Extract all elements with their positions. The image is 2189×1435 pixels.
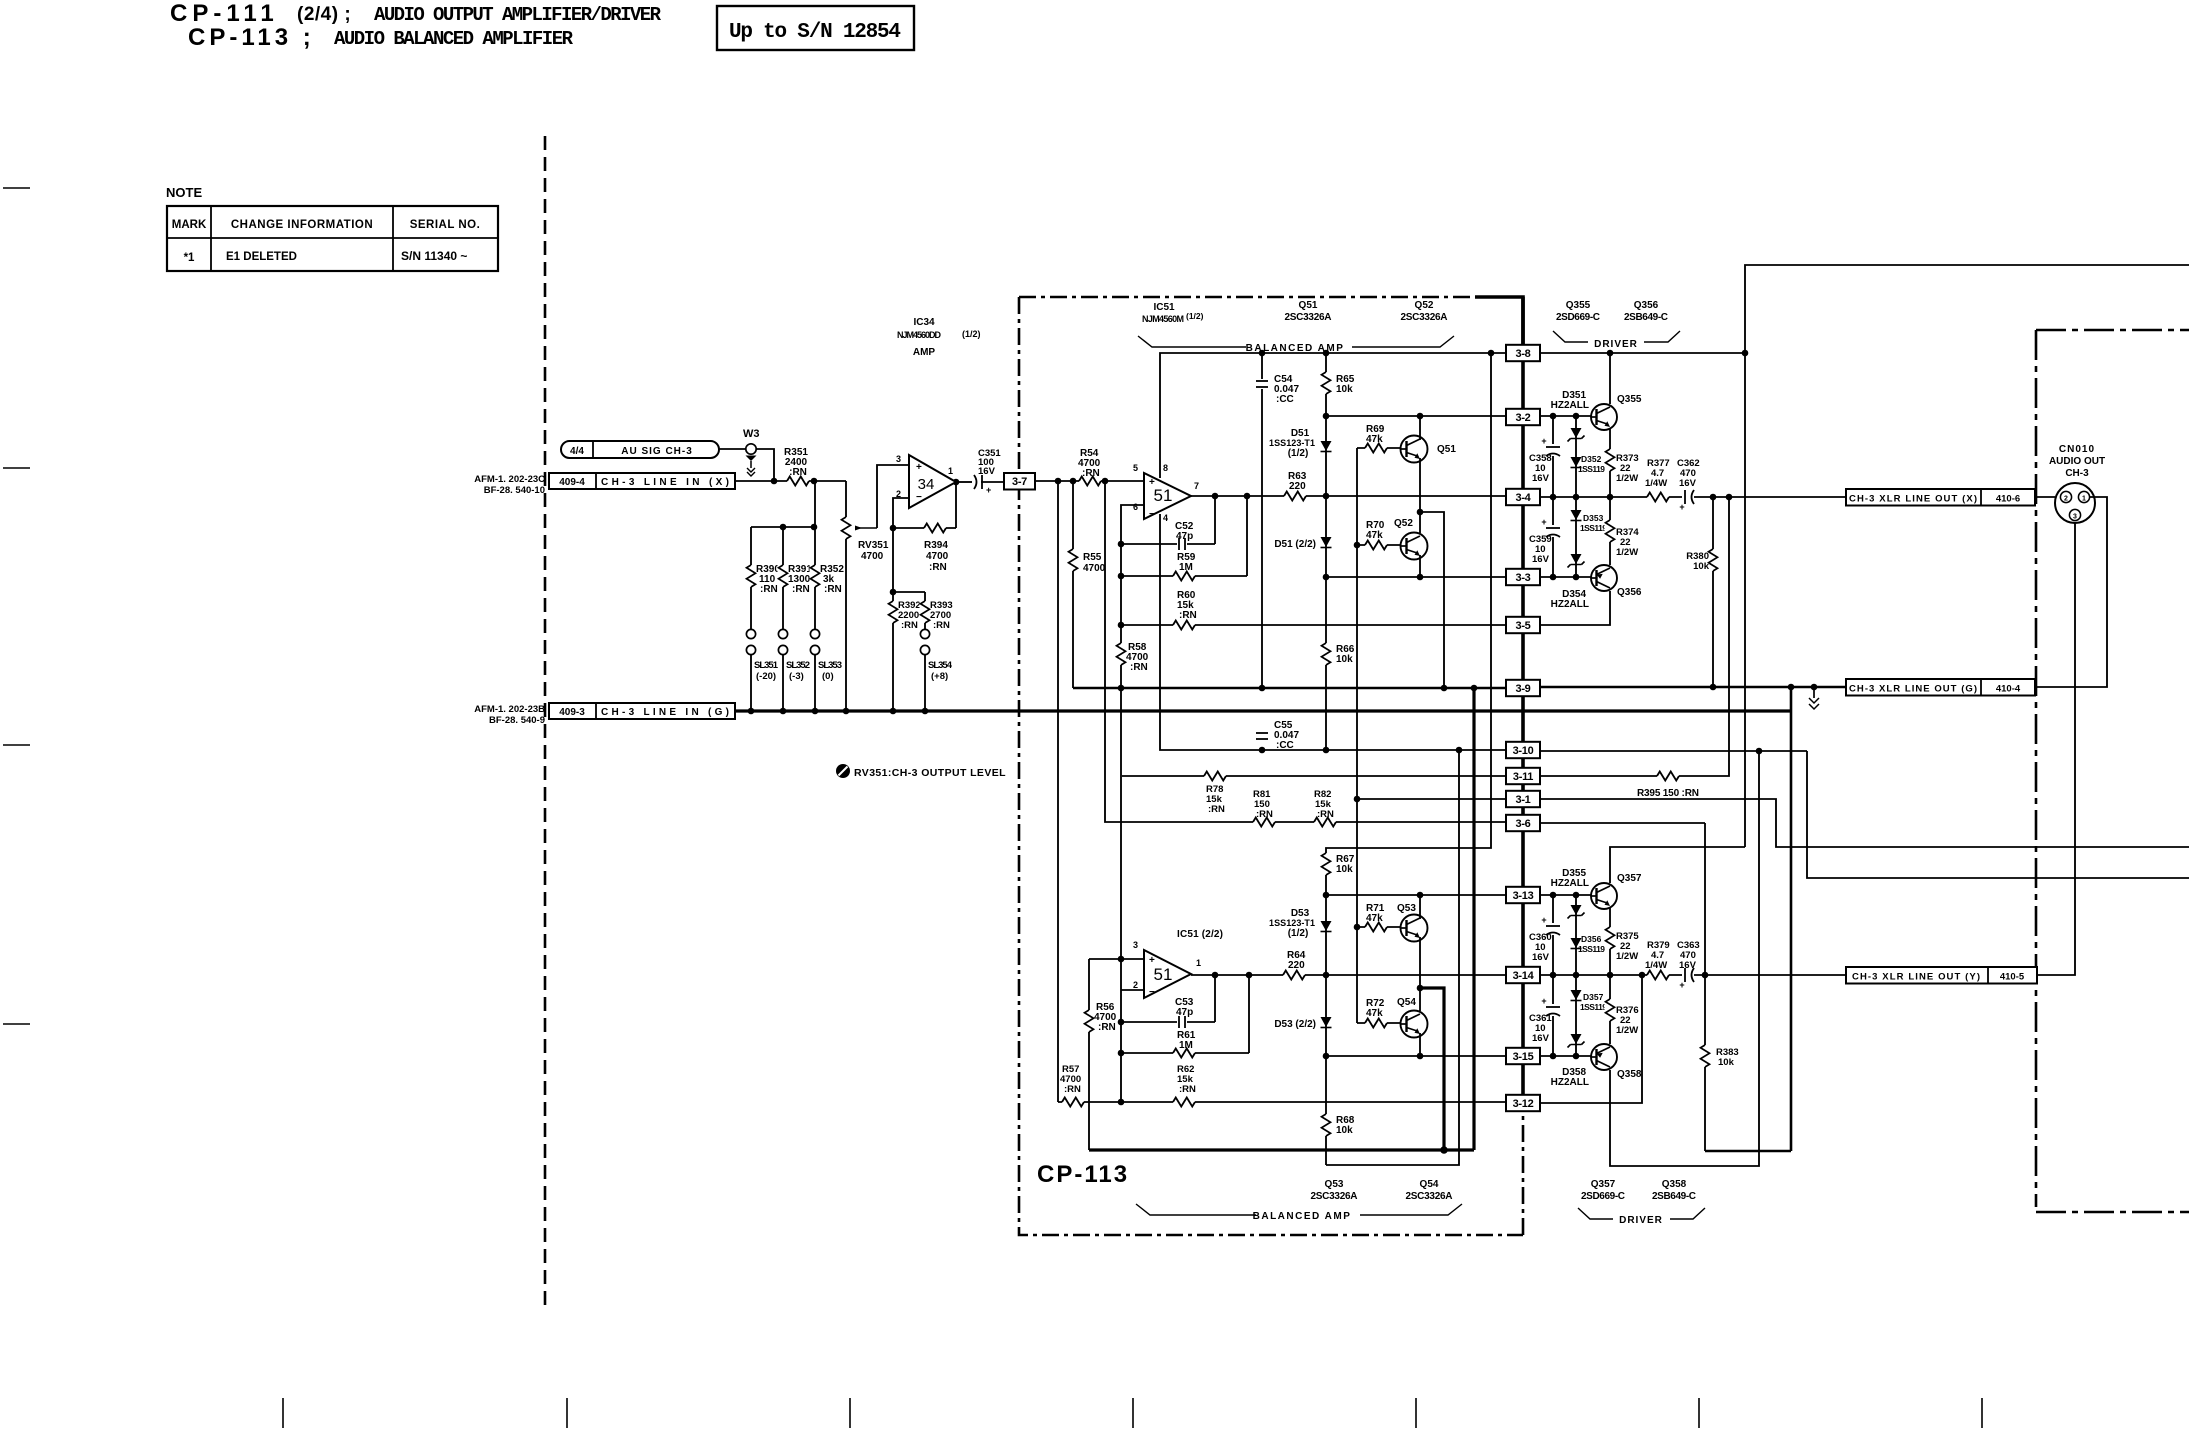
svg-text:+: + (1541, 436, 1546, 446)
potentiometer RV351 4700 (845, 481, 847, 712)
wire 3-10 return to right sheet (1807, 751, 2189, 878)
svg-text:NJM4560M: NJM4560M (1142, 314, 1184, 324)
svg-text:IC51: IC51 (1153, 302, 1175, 313)
wire Q357 collector to supply (1610, 847, 1745, 883)
wire 3-11 line with R78 (1122, 775, 1506, 777)
wire R392/R393 link (893, 591, 925, 593)
svg-text:3: 3 (1133, 940, 1138, 950)
connector box 3-8 (1506, 345, 1540, 361)
svg-text:220: 220 (1288, 960, 1305, 971)
resistor R55 4700 (1068, 549, 1079, 571)
svg-text:47k: 47k (1366, 1008, 1383, 1019)
svg-text:Q51: Q51 (1437, 444, 1456, 455)
diode D51 (2/2) (1321, 537, 1332, 547)
wire ground bus G thick (735, 709, 1791, 712)
svg-text:HZ2ALL: HZ2ALL (1551, 599, 1589, 610)
zener diode D358 HZ2ALL (1571, 1034, 1582, 1044)
capacitor C53 47p (1121, 1021, 1215, 1023)
svg-text:1/2W: 1/2W (1616, 547, 1638, 558)
resistor R56 4700 :RN (1088, 959, 1090, 1150)
svg-text:16V: 16V (1679, 478, 1697, 489)
diode D357 1SS119 (1571, 990, 1582, 1000)
svg-text:3-10: 3-10 (1513, 745, 1534, 757)
svg-text:1/4W: 1/4W (1645, 478, 1667, 489)
svg-text:3-15: 3-15 (1513, 1051, 1534, 1063)
capacitor C362 470 16V (1682, 488, 1694, 506)
wire IC51a pin6 column (1121, 505, 1144, 1102)
diode D53 (2/2) (1321, 1017, 1332, 1027)
svg-text:16V: 16V (1532, 554, 1550, 565)
wire IC51b pin2 (1121, 989, 1144, 991)
resistor R64 220 (1283, 970, 1305, 981)
junction dot D51 3-3 (1323, 574, 1330, 581)
CP-113 board boundary dash-dot box (1019, 297, 1523, 1235)
wire D53 column (1325, 895, 1327, 1165)
svg-text:4700: 4700 (926, 551, 949, 562)
svg-text:3-5: 3-5 (1516, 620, 1531, 632)
junction dots 3-2 line (1323, 413, 1330, 420)
junction dots X line right (1710, 494, 1717, 501)
junction dot D53 3-15 (1323, 1053, 1330, 1060)
left page divider dash line (544, 136, 547, 1310)
svg-text:CH-3 XLR LINE OUT (X): CH-3 XLR LINE OUT (X) (1849, 494, 1977, 505)
junction dots base column (1354, 542, 1361, 549)
switch SL353 (0) (810, 629, 819, 638)
wire RV351 wiper to op-amp + input (877, 465, 909, 528)
wire R391 column (782, 527, 784, 630)
svg-text:RV351:CH-3 OUTPUT LEVEL: RV351:CH-3 OUTPUT LEVEL (854, 767, 1006, 779)
wire interface connector column (1521, 297, 1525, 1096)
resistor R57 4700 :RN (1062, 1097, 1084, 1108)
connector box 409-3 CH-3 LINE IN (G) (549, 703, 735, 719)
capacitor C361 10 16V (1552, 975, 1554, 1056)
connector CN010 XLR circle (2055, 483, 2095, 523)
wire IC51b output Y line (1191, 974, 1506, 976)
svg-text::RN: :RN (789, 467, 807, 478)
svg-text:BF-28. 540-10: BF-28. 540-10 (484, 485, 545, 496)
wire R55 column (1072, 481, 1074, 688)
svg-text:+: + (916, 462, 922, 473)
svg-text:1: 1 (2082, 496, 2086, 503)
svg-text:AUDIO OUT: AUDIO OUT (2049, 456, 2105, 467)
svg-text:DRIVER: DRIVER (1594, 339, 1638, 350)
svg-text:Q53: Q53 (1397, 903, 1416, 914)
svg-text:NJM4560DD: NJM4560DD (897, 330, 942, 340)
svg-text:RV351: RV351 (858, 540, 889, 551)
svg-text:D357: D357 (1583, 992, 1604, 1002)
svg-text:R55: R55 (1083, 552, 1102, 563)
svg-text:(1/2): (1/2) (962, 329, 981, 339)
transistor Q53 (1401, 915, 1428, 942)
connector box 3-6 (1506, 815, 1540, 831)
svg-text:2SB649-C: 2SB649-C (1624, 312, 1668, 323)
transistor Q356 (1591, 565, 1617, 591)
svg-text:1/2W: 1/2W (1616, 473, 1638, 484)
junction dot R63 to D51 (1323, 493, 1330, 500)
svg-text:3-9: 3-9 (1516, 683, 1531, 695)
svg-text:+: + (1541, 915, 1546, 925)
svg-text:16V: 16V (978, 466, 996, 477)
wire XLR pin3 down to 410-5 (2037, 523, 2075, 975)
resistor R67 10k (1321, 853, 1332, 875)
svg-text:+: + (1149, 955, 1155, 966)
svg-text:HZ2ALL: HZ2ALL (1551, 1077, 1589, 1088)
wire IC51a output X line (1191, 495, 1506, 497)
wire IC34 output to C351 (956, 481, 972, 483)
svg-text:8: 8 (1163, 463, 1168, 473)
capacitor C351 100 16V (974, 475, 977, 489)
svg-text:16V: 16V (1532, 952, 1550, 963)
wire IC51a pin4 to 3-10 rail (1160, 514, 1506, 750)
switch SL352 (-3) (778, 629, 787, 638)
wire gain ladder link (751, 526, 815, 528)
capacitor C359 10 16V (1552, 497, 1554, 577)
svg-text:220: 220 (1289, 481, 1306, 492)
transistor Q357 (1591, 883, 1617, 909)
svg-text:Q54: Q54 (1420, 1179, 1439, 1190)
resistor R71 47k (1357, 926, 1400, 928)
wire base bias column (1356, 448, 1358, 1023)
svg-text:CP-113 ;: CP-113 ; (188, 24, 315, 51)
svg-text:HZ2ALL: HZ2ALL (1551, 400, 1589, 411)
svg-text:AU SIG CH-3: AU SIG CH-3 (621, 446, 693, 457)
svg-text:3-11: 3-11 (1513, 771, 1533, 783)
connector box 3-2 (1506, 409, 1540, 425)
svg-text:Q54: Q54 (1397, 997, 1416, 1008)
junction dots 3-3 right (1550, 574, 1557, 581)
resistor R78 15k :RN (1204, 771, 1226, 782)
wire 3-9 rail (1073, 687, 1506, 690)
wire 3-12 line with R57 R62 (1058, 1101, 1506, 1103)
resistor R373 22 1/2W (1605, 449, 1616, 471)
svg-text:1SS119: 1SS119 (1578, 464, 1605, 474)
svg-text:Q53: Q53 (1325, 1179, 1344, 1190)
svg-text:1/4W: 1/4W (1645, 960, 1667, 971)
transistor Q355 (1591, 404, 1617, 430)
svg-text:(1/2): (1/2) (1288, 448, 1309, 459)
svg-text:1SS119: 1SS119 (1580, 1002, 1607, 1012)
svg-text:Q357: Q357 (1591, 1179, 1616, 1190)
wire Q52 emitter to 3-3 (1419, 555, 1421, 577)
svg-text:R395 150 :RN: R395 150 :RN (1637, 788, 1699, 799)
svg-text:51: 51 (1154, 965, 1173, 984)
junction dots driver X line (1550, 494, 1557, 501)
wire Q54 collector (1419, 988, 1421, 1011)
svg-text:3: 3 (896, 454, 901, 464)
svg-text:D353: D353 (1583, 513, 1604, 523)
connector 4/4 AU SIG CH-3 stadium (561, 441, 719, 458)
zener diode D354 HZ2ALL (1571, 554, 1582, 564)
svg-text:2SD669-C: 2SD669-C (1581, 1191, 1625, 1202)
resistor R380 10k (1712, 497, 1714, 687)
svg-text:CH-3: CH-3 (2065, 468, 2089, 479)
wire Y output line driver (1540, 974, 1846, 976)
wire XLR pin1 to 410-4 (2035, 497, 2107, 687)
svg-text:1M: 1M (1179, 562, 1193, 573)
svg-text:+: + (1679, 980, 1684, 990)
wire 410-6 to XLR pin2 (2035, 496, 2055, 498)
svg-text::CC: :CC (1276, 740, 1294, 751)
resistor R58 4700 :RN (1116, 643, 1127, 665)
svg-text:1SS123-T1: 1SS123-T1 (1269, 438, 1315, 448)
svg-text:+: + (986, 485, 991, 495)
svg-text:1: 1 (1196, 958, 1201, 968)
svg-text:7: 7 (1194, 481, 1199, 491)
wire ground drop right thick (1790, 687, 1793, 1151)
diode D356 1SS119 (1571, 938, 1582, 948)
connector box 3-13 (1506, 887, 1540, 903)
svg-text::RN: :RN (1064, 1084, 1081, 1095)
svg-text:2SC3326A: 2SC3326A (1311, 1191, 1358, 1202)
svg-text::RN: :RN (933, 620, 950, 631)
svg-text:Q356: Q356 (1634, 300, 1659, 311)
resistor R375 22 1/2W (1605, 927, 1616, 949)
svg-text::RN: :RN (1098, 1022, 1116, 1033)
capacitor C52 47p (1121, 543, 1215, 545)
diode D352 1SS119 (1571, 457, 1582, 467)
svg-text::RN: :RN (760, 584, 778, 595)
resistor R69 47k (1357, 447, 1400, 449)
svg-text:Up to S/N 12854: Up to S/N 12854 (729, 21, 901, 44)
wire 3-12 right to 3-14 column (1540, 975, 1642, 1103)
connector box 409-4 CH-3 LINE IN (X) (549, 473, 735, 489)
resistor R66 10k (1321, 643, 1332, 665)
wire Q52 collector (1419, 512, 1421, 533)
svg-text:3-13: 3-13 (1513, 890, 1534, 902)
svg-text:Q51: Q51 (1299, 300, 1318, 311)
svg-text:(-3): (-3) (789, 671, 804, 682)
svg-text:S/N 11340 ~: S/N 11340 ~ (401, 249, 467, 263)
svg-text:D356: D356 (1581, 934, 1602, 944)
svg-text::RN: :RN (929, 562, 947, 573)
note RV351 CH-3 OUTPUT LEVEL (836, 764, 850, 778)
svg-text:E1 DELETED: E1 DELETED (226, 251, 297, 263)
resistor R383 10k (1704, 823, 1706, 1151)
wire D51 column (1325, 416, 1327, 750)
svg-text:2SB649-C: 2SB649-C (1652, 1191, 1696, 1202)
wire feedback to output (955, 482, 957, 528)
resistor R395 150 :RN (1657, 771, 1679, 782)
svg-text:3: 3 (2073, 514, 2077, 521)
transistor Q51 (1401, 436, 1428, 463)
diode D53 1SS123-T1 (1/2) (1321, 921, 1332, 931)
diode chain D355-D358 column (1575, 895, 1577, 1056)
svg-text:2: 2 (1133, 980, 1138, 990)
svg-text:SL351: SL351 (754, 660, 779, 671)
svg-text:Q355: Q355 (1566, 300, 1591, 311)
svg-text:4700: 4700 (861, 551, 884, 562)
svg-text:D352: D352 (1581, 454, 1602, 464)
connector box 3-15 (1506, 1048, 1540, 1064)
capacitor C360 10 16V (1552, 895, 1554, 975)
svg-text:47p: 47p (1176, 1007, 1193, 1018)
svg-text::RN: :RN (792, 584, 810, 595)
svg-text:4700: 4700 (1083, 563, 1106, 574)
wire G output line 3-9 to 410-4 (1540, 686, 1846, 689)
svg-text:3-1: 3-1 (1516, 794, 1531, 806)
svg-text:1/2W: 1/2W (1616, 1025, 1638, 1036)
wire 3-1 line (1357, 798, 1506, 800)
svg-text:IC34: IC34 (913, 317, 935, 328)
svg-text:51: 51 (1154, 486, 1173, 505)
svg-text:(0): (0) (822, 671, 834, 682)
wire Q356 base (1540, 576, 1591, 578)
resistor R392 2200 :RN (892, 592, 894, 712)
svg-text:409-4: 409-4 (559, 477, 585, 488)
wire R68 rail to 3-10 column (1326, 750, 1459, 1165)
svg-text:4: 4 (1163, 513, 1168, 523)
wire Q357 emitter through R375 (1609, 908, 1611, 975)
resistor R54 4700 :RN (1079, 476, 1101, 487)
op-amp U-IC34 triangle 34 (909, 455, 956, 508)
svg-text::RN: :RN (1256, 809, 1273, 820)
svg-text:NOTE: NOTE (166, 185, 202, 200)
svg-text::CC: :CC (1276, 394, 1294, 405)
svg-text:SERIAL NO.: SERIAL NO. (410, 219, 481, 231)
svg-text:AUDIO BALANCED AMPLIFIER: AUDIO BALANCED AMPLIFIER (334, 28, 574, 50)
junction dots on G bus (748, 708, 755, 715)
svg-text:SL354: SL354 (928, 660, 953, 671)
svg-text:(1/2): (1/2) (1288, 928, 1309, 939)
switch SL354 (+8) (920, 629, 929, 638)
svg-text:HZ2ALL: HZ2ALL (1551, 878, 1589, 889)
wire Q53 collector (1419, 895, 1421, 919)
svg-text:Q358: Q358 (1662, 1179, 1687, 1190)
svg-text:47p: 47p (1176, 531, 1193, 542)
wire thick ground drop from 3-9 (1472, 688, 1475, 1150)
resistor R393 2700 :RN (920, 601, 931, 623)
svg-text:3-2: 3-2 (1516, 412, 1531, 424)
svg-text:6: 6 (1133, 502, 1138, 512)
wire 3-6 feed column (1105, 481, 1506, 822)
diode D51 1SS123-T1 (1/2) (1321, 441, 1332, 451)
svg-text:Q52: Q52 (1394, 518, 1413, 529)
junction dots ladder link (780, 524, 787, 531)
svg-text:W3: W3 (743, 428, 760, 440)
wire supply column 3-8 to R67 (1326, 353, 1491, 895)
balanced amp bracket top (1138, 336, 1454, 347)
driver bracket label top (1553, 331, 1680, 342)
resistor R376 22 1/2W (1605, 999, 1616, 1021)
wire supply line top right (1745, 265, 2189, 847)
svg-text:*1: *1 (184, 252, 195, 264)
wire 3-7 to IC51 pin5 (1035, 480, 1144, 482)
resistor R82 15k :RN (1314, 817, 1336, 828)
wire Q356 emitter through R374 (1609, 497, 1611, 565)
svg-text:+: + (1541, 517, 1546, 527)
bottom margin tick marks (282, 1398, 284, 1428)
transistor Q358 (1591, 1044, 1617, 1070)
svg-text:Q356: Q356 (1617, 587, 1642, 598)
resistor R72 47k (1357, 1022, 1400, 1024)
svg-text:47k: 47k (1366, 913, 1383, 924)
resistor R394 4700 :RN feedback (893, 527, 956, 529)
svg-text:(+8): (+8) (931, 671, 948, 682)
left margin tick marks (3, 187, 30, 189)
wire Q54 node to ground rail thick (1420, 988, 1444, 1150)
svg-text:R394: R394 (924, 540, 948, 551)
wire X output line driver (1540, 496, 1846, 498)
op-amp U-IC51a triangle 51 (1144, 473, 1191, 519)
junction dot op-amp output (953, 479, 960, 486)
svg-text:409-3: 409-3 (559, 707, 585, 718)
wire Q358 emitter through R376 (1609, 975, 1611, 1044)
svg-text:CH-3 XLR LINE OUT (Y): CH-3 XLR LINE OUT (Y) (1852, 972, 1980, 983)
svg-text:3-7: 3-7 (1012, 476, 1027, 488)
svg-text:BALANCED AMP: BALANCED AMP (1253, 1211, 1352, 1222)
svg-text:3-8: 3-8 (1516, 348, 1531, 360)
wire Q358 base (1540, 1055, 1591, 1057)
diode chain D351-D354 column (1575, 416, 1577, 577)
svg-text:3-14: 3-14 (1513, 970, 1535, 982)
svg-text:(1/2): (1/2) (1186, 311, 1204, 321)
svg-text:3-3: 3-3 (1516, 572, 1531, 584)
svg-text:1SS119: 1SS119 (1578, 944, 1605, 954)
wire Q356 collector to 3-5 (1540, 591, 1610, 625)
wire 3-13 to Q357 base (1540, 894, 1591, 896)
svg-text:CHANGE INFORMATION: CHANGE INFORMATION (231, 219, 373, 231)
connector box CH-3 XLR LINE OUT (G) 410-4 (1846, 679, 2035, 696)
wire mid node to 3-9 (1420, 512, 1444, 688)
junction dots 3-10 rail (1259, 747, 1266, 754)
wire Q358 collector to 3-10 loop (1610, 751, 1759, 1166)
svg-text:16V: 16V (1532, 1033, 1550, 1044)
svg-text:AMP: AMP (913, 347, 936, 358)
capacitor C358 10 16V (1552, 416, 1554, 497)
junction dots 3-9 rail (1118, 685, 1125, 692)
resistor R377 4.7 1/4W (1647, 492, 1669, 503)
svg-text:1SS123-T1: 1SS123-T1 (1269, 918, 1315, 928)
svg-text:47k: 47k (1366, 530, 1383, 541)
wire R352 column (814, 481, 816, 630)
svg-text:CP-111: CP-111 (170, 0, 279, 27)
svg-text:1SS119: 1SS119 (1580, 523, 1607, 533)
svg-text:16V: 16V (1532, 473, 1550, 484)
resistor R374 22 1/2W (1605, 520, 1616, 542)
svg-text:−: − (1149, 509, 1155, 520)
junction dots pin2 column (1118, 1019, 1125, 1026)
svg-text:+: + (1541, 996, 1546, 1006)
svg-text:2: 2 (896, 489, 901, 499)
wire 3-8 to driver rail (1540, 352, 1745, 354)
wire lower right ground link (1705, 1150, 1791, 1153)
svg-text:410-6: 410-6 (1996, 494, 2020, 505)
svg-text:4/4: 4/4 (570, 446, 584, 457)
svg-text:5: 5 (1133, 463, 1138, 473)
svg-text::RN: :RN (1179, 1084, 1196, 1095)
svg-text:AFM-1. 202-23C: AFM-1. 202-23C (474, 474, 545, 485)
resistor R65 10k (1325, 353, 1327, 416)
svg-text:3-4: 3-4 (1516, 492, 1532, 504)
CP-113 boundary thick corner to connector column (1475, 297, 1523, 346)
svg-text:AFM-1. 202-23B: AFM-1. 202-23B (474, 704, 545, 715)
svg-text:−: − (916, 492, 922, 503)
svg-text:Q358: Q358 (1617, 1069, 1642, 1080)
wire Q355 emitter through R373 (1609, 429, 1611, 497)
junction dot feedback node (890, 525, 897, 532)
switch SL351 (-20) (746, 629, 755, 638)
wire Q51 collector (1419, 416, 1421, 440)
resistor R81 150 :RN (1253, 817, 1275, 828)
wire 3-13 line (1326, 894, 1506, 896)
connector box CH-3 XLR LINE OUT (X) 410-6 (1846, 489, 2035, 506)
resistor R70 47k (1357, 544, 1400, 546)
wire AU SIG to W3 and input line (719, 449, 774, 481)
junction dots 3-15 right (1550, 1053, 1557, 1060)
svg-text:3-6: 3-6 (1516, 818, 1531, 830)
svg-text:2SC3326A: 2SC3326A (1406, 1191, 1453, 1202)
svg-text:CN010: CN010 (2059, 444, 2095, 455)
